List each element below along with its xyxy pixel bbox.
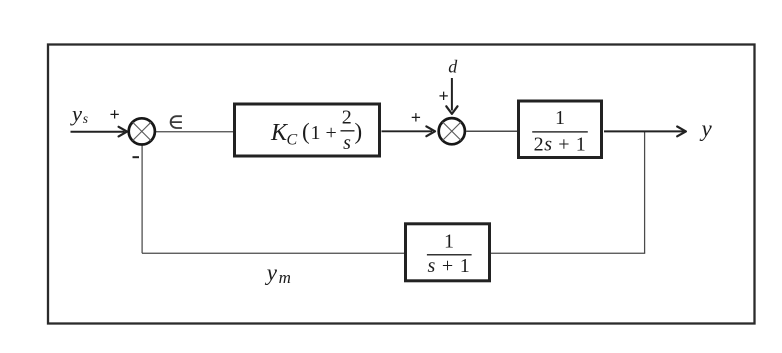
svg-text:2s + 1: 2s + 1 xyxy=(534,134,587,156)
svg-text:2: 2 xyxy=(342,107,352,129)
svg-text:y: y xyxy=(700,116,713,141)
svg-text:+: + xyxy=(110,105,120,125)
svg-text:C: C xyxy=(287,132,298,149)
svg-text:y: y xyxy=(265,260,278,285)
svg-text:m: m xyxy=(279,268,291,287)
svg-text:s: s xyxy=(343,132,351,154)
svg-text:1: 1 xyxy=(555,107,565,129)
svg-text:s + 1: s + 1 xyxy=(427,255,470,277)
svg-text:1: 1 xyxy=(311,122,321,144)
svg-text:1: 1 xyxy=(444,231,454,253)
svg-text:(: ( xyxy=(302,119,310,144)
svg-text:): ) xyxy=(355,119,363,144)
svg-text:d: d xyxy=(448,56,458,76)
svg-text:+: + xyxy=(439,86,449,106)
svg-text:y: y xyxy=(70,101,82,126)
svg-text:s: s xyxy=(83,111,88,126)
svg-text:+: + xyxy=(411,108,421,128)
svg-text:+: + xyxy=(326,122,337,144)
